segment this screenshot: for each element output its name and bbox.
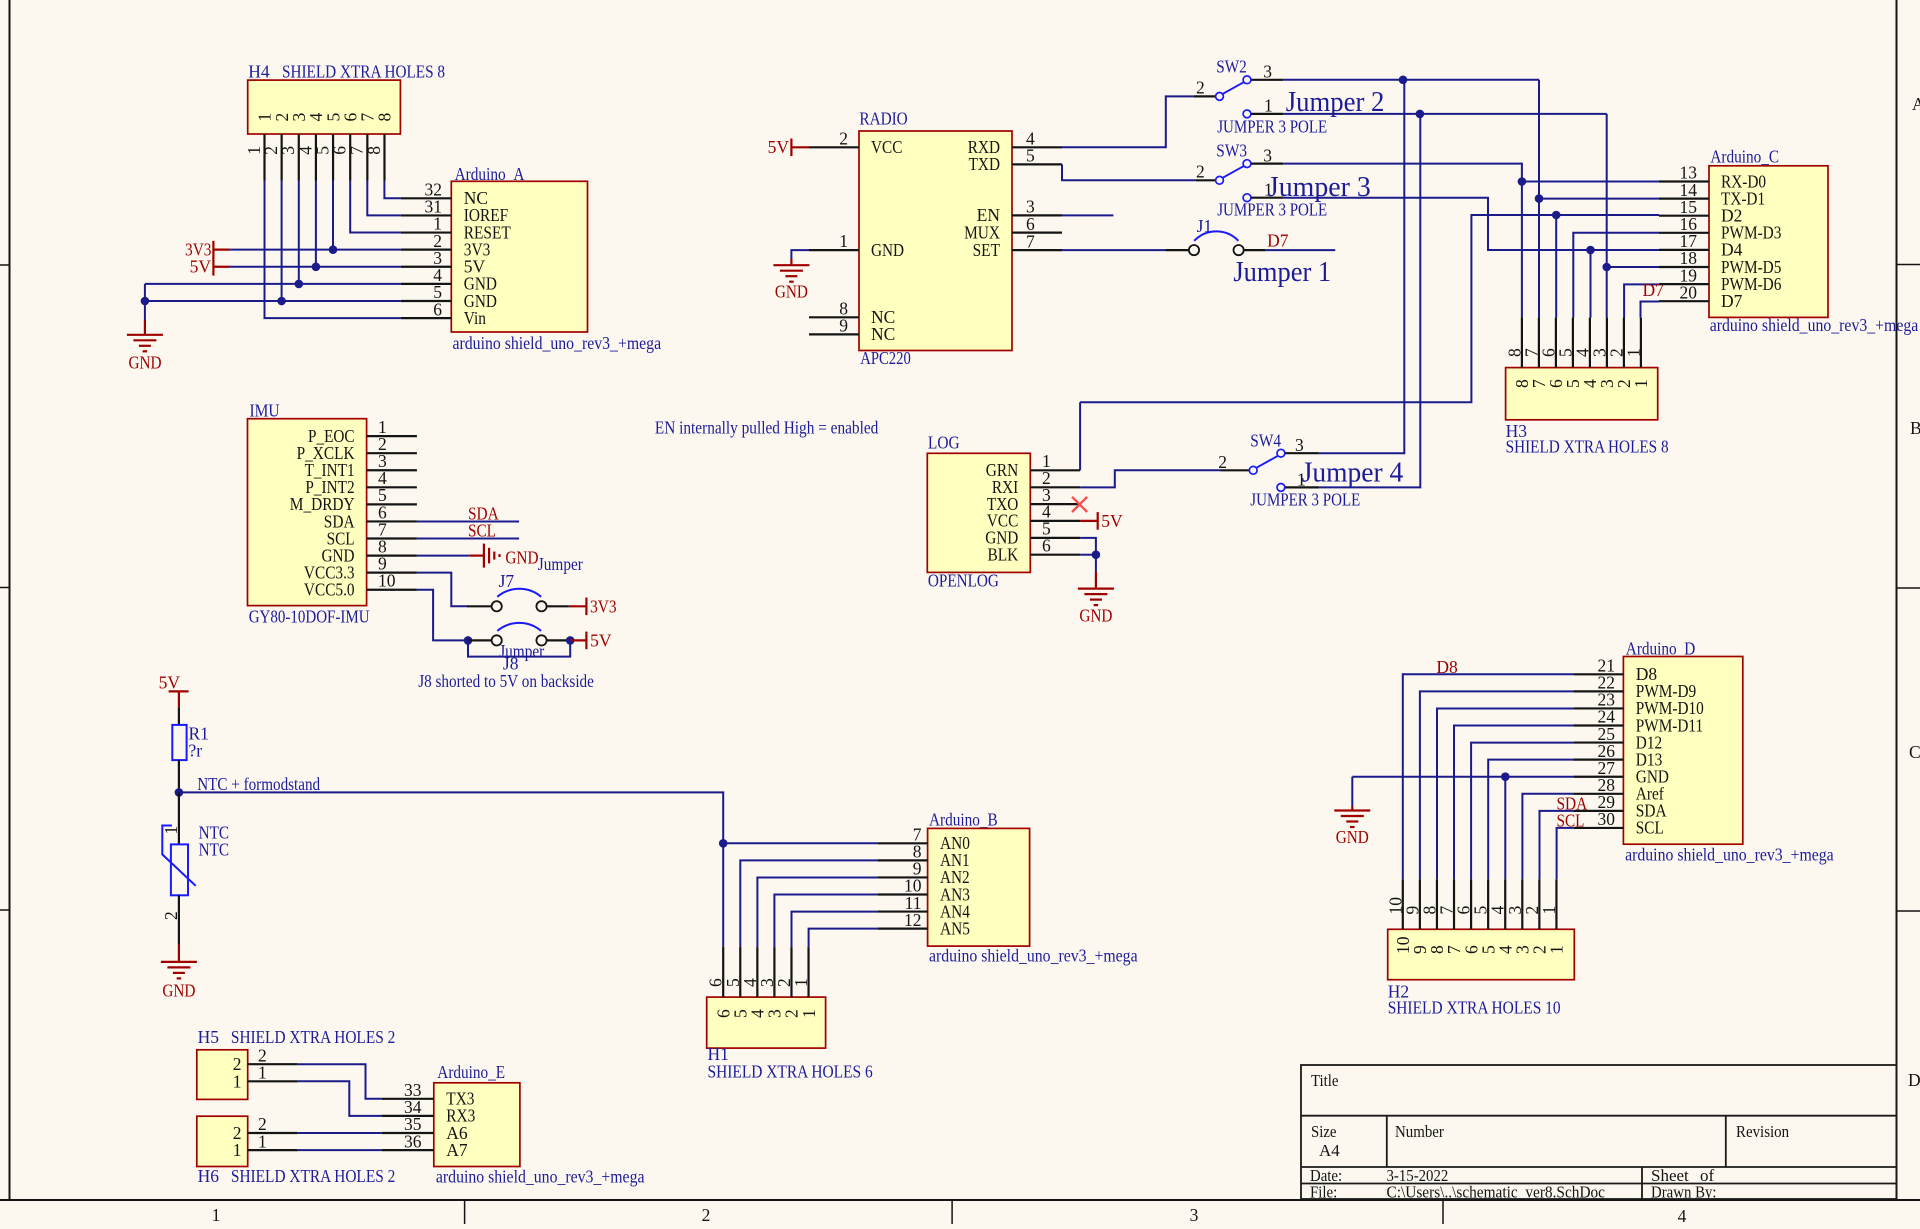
junction bbox=[1535, 194, 1544, 203]
wire SW4.1 up to SW2.1 net bbox=[1319, 114, 1420, 488]
wire RXD to SW2.2 bbox=[1062, 96, 1194, 147]
svg-text:H5: H5 bbox=[198, 1027, 220, 1047]
Arduino_E pin 35 A6 bbox=[382, 1132, 434, 1134]
wire NTC node to Arduino_B bbox=[179, 792, 723, 843]
Arduino_C pin 17 D4 bbox=[1659, 249, 1709, 251]
power flag 3V3 bbox=[213, 249, 229, 251]
SW3 pin 3 bbox=[1243, 160, 1251, 168]
H4 pin 4 bbox=[315, 134, 317, 181]
svg-text:Title: Title bbox=[1311, 1071, 1339, 1090]
junction NTC node bbox=[175, 788, 184, 797]
svg-text:5: 5 bbox=[1026, 146, 1035, 166]
SW4 pin 1 bbox=[1277, 484, 1285, 492]
H4 pin 5 bbox=[332, 134, 334, 181]
LOG pin 3 TXO bbox=[1030, 503, 1080, 505]
H1 pin 1 bbox=[807, 947, 809, 997]
SW4 pin 2 bbox=[1249, 466, 1257, 474]
svg-text:SW2: SW2 bbox=[1216, 57, 1247, 77]
wire net SW2.3 / TX-D1 / H3.7 bbox=[1283, 79, 1539, 81]
svg-text:Drawn By:: Drawn By: bbox=[1651, 1183, 1717, 1202]
svg-text:Arduino_D: Arduino_D bbox=[1626, 639, 1696, 659]
svg-text:Arduino_B: Arduino_B bbox=[929, 810, 998, 830]
wire AN0 bbox=[723, 842, 877, 844]
IMU pin 6 SDA bbox=[367, 520, 417, 522]
wire TXD to SW3.2 bbox=[1062, 164, 1196, 180]
Arduino_A pin 31 IOREF bbox=[401, 214, 451, 216]
wire LOG GND bbox=[1080, 538, 1096, 555]
H4 pin 8 bbox=[383, 134, 385, 181]
svg-text:20: 20 bbox=[1680, 282, 1698, 302]
wire GND drop at left bbox=[144, 284, 146, 320]
Arduino_D pin 23 PWM-D10 bbox=[1573, 707, 1623, 709]
H4 pin 6 bbox=[349, 134, 351, 181]
H5 pin 2 bbox=[248, 1063, 298, 1065]
wire 5V row bbox=[230, 266, 401, 268]
H1 pin 5 bbox=[739, 947, 741, 997]
Arduino_A pin 4 GND bbox=[401, 283, 451, 285]
svg-text:6: 6 bbox=[1042, 536, 1051, 556]
svg-text:1: 1 bbox=[799, 1009, 819, 1018]
LOG pin 2 RXI bbox=[1030, 486, 1080, 488]
svg-text:arduino shield_uno_rev3_+mega: arduino shield_uno_rev3_+mega bbox=[436, 1167, 645, 1187]
wire AN1 to H1.5 bbox=[740, 860, 877, 947]
svg-text:GND: GND bbox=[1079, 606, 1112, 626]
svg-text:2: 2 bbox=[1218, 452, 1227, 472]
wire SCL to H2.1 bbox=[1557, 828, 1574, 879]
LOG pin 6 BLK bbox=[1030, 554, 1080, 556]
svg-text:arduino shield_uno_rev3_+mega: arduino shield_uno_rev3_+mega bbox=[1710, 315, 1919, 335]
svg-text:NTC + formodstand: NTC + formodstand bbox=[197, 774, 320, 794]
wire AN3 to H1.3 bbox=[774, 895, 877, 948]
svg-text:1: 1 bbox=[258, 1131, 267, 1151]
svg-text:GY80-10DOF-IMU: GY80-10DOF-IMU bbox=[249, 607, 370, 627]
svg-text:5V: 5V bbox=[190, 257, 212, 277]
svg-text:A4: A4 bbox=[1319, 1141, 1340, 1160]
wire SCL bbox=[417, 538, 519, 540]
svg-text:3: 3 bbox=[1263, 145, 1272, 165]
wire GND row upper bbox=[145, 283, 401, 285]
connector H6 SHIELD XTRA HOLES 2 bbox=[197, 1116, 248, 1166]
svg-text:H6: H6 bbox=[198, 1166, 220, 1186]
junction bbox=[141, 297, 150, 306]
Arduino_C pin 19 PWM-D6 bbox=[1659, 283, 1709, 285]
svg-text:2: 2 bbox=[1196, 78, 1205, 98]
svg-text:5V: 5V bbox=[768, 137, 790, 157]
svg-text:AN5: AN5 bbox=[940, 918, 970, 938]
wire H4.4 to 5V net bbox=[315, 181, 317, 267]
LOG pin 1 GRN bbox=[1030, 469, 1080, 471]
RADIO pin 2 VCC bbox=[809, 146, 859, 148]
Arduino_C pin 20 D7 bbox=[1659, 300, 1709, 302]
svg-text:?r: ?r bbox=[189, 741, 203, 761]
svg-text:Jumper 1: Jumper 1 bbox=[1233, 256, 1331, 288]
IMU pin 5 M_DRDY bbox=[367, 503, 417, 505]
svg-text:8: 8 bbox=[375, 113, 395, 122]
IMU pin 8 GND bbox=[367, 554, 417, 556]
H2 pin 1 bbox=[1555, 879, 1557, 929]
IMU pin 10 VCC5.0 bbox=[367, 589, 417, 591]
IMU pin 3 T_INT1 bbox=[367, 469, 417, 471]
junction bbox=[719, 839, 728, 848]
wire LOG RXI to SW4.2 bbox=[1080, 470, 1220, 487]
svg-text:A: A bbox=[1912, 94, 1920, 114]
Arduino_D pin 28 Aref bbox=[1573, 793, 1623, 795]
svg-text:Revision: Revision bbox=[1736, 1122, 1790, 1141]
wire NTC node down to H1.6 bbox=[722, 843, 724, 947]
wire net D7 / H3.1 bbox=[1641, 302, 1660, 318]
svg-text:SHIELD XTRA HOLES 8: SHIELD XTRA HOLES 8 bbox=[282, 62, 445, 82]
svg-text:C:\Users\..\schematic_ver8.Sch: C:\Users\..\schematic_ver8.SchDoc bbox=[1387, 1183, 1606, 1202]
ground GND left bbox=[144, 320, 146, 335]
svg-text:SHIELD XTRA HOLES 10: SHIELD XTRA HOLES 10 bbox=[1388, 998, 1561, 1018]
junction bbox=[1416, 110, 1425, 119]
svg-text:1: 1 bbox=[161, 826, 181, 835]
svg-text:1: 1 bbox=[233, 1071, 242, 1091]
H3 pin 5 bbox=[1572, 318, 1574, 368]
Arduino_E pin 34 RX3 bbox=[382, 1115, 434, 1117]
svg-text:B: B bbox=[1910, 418, 1920, 438]
junction bbox=[1552, 211, 1561, 220]
wire AN5 to H1.1 bbox=[809, 929, 878, 947]
svg-text:File:: File: bbox=[1310, 1183, 1337, 1202]
SW4 lever bbox=[1256, 456, 1278, 468]
wire EN open bbox=[1062, 214, 1113, 216]
svg-text:SW3: SW3 bbox=[1216, 141, 1247, 161]
wire H4.8 to NC bbox=[384, 181, 401, 199]
wire AN4 to H1.2 bbox=[792, 912, 878, 948]
svg-text:SW4: SW4 bbox=[1250, 431, 1281, 451]
svg-text:5V: 5V bbox=[590, 631, 612, 651]
connector H4 SHIELD XTRA HOLES 8 bbox=[248, 80, 401, 134]
H6 pin 1 bbox=[248, 1149, 298, 1151]
svg-text:Arduino_C: Arduino_C bbox=[1710, 147, 1779, 167]
svg-text:Number: Number bbox=[1395, 1122, 1444, 1141]
svg-text:JUMPER 3 POLE: JUMPER 3 POLE bbox=[1217, 117, 1327, 137]
svg-text:RADIO: RADIO bbox=[859, 109, 907, 129]
svg-text:GND: GND bbox=[1336, 827, 1369, 847]
IMU pin 7 SCL bbox=[367, 537, 417, 539]
wire GND row lower bbox=[145, 300, 401, 302]
svg-text:1: 1 bbox=[1631, 379, 1651, 388]
Arduino_A pin 2 3V3 bbox=[401, 249, 451, 251]
junction bbox=[1399, 76, 1408, 85]
Arduino_C pin 13 RX-D0 bbox=[1659, 180, 1709, 182]
Arduino_B pin 7 AN0 bbox=[878, 842, 928, 844]
wire net PWM-D6 / H3.2 bbox=[1624, 284, 1659, 317]
H2 pin 5 bbox=[1487, 879, 1489, 929]
wire H4.3 to GND net bbox=[298, 181, 300, 284]
svg-text:2: 2 bbox=[702, 1205, 711, 1224]
connector H3 SHIELD XTRA HOLES 8 bbox=[1506, 368, 1658, 420]
connector H1 SHIELD XTRA HOLES 6 bbox=[707, 997, 826, 1048]
wire D13 to H2.5 bbox=[1488, 760, 1573, 880]
junction bbox=[1602, 263, 1611, 272]
Arduino_A pin 6 Vin bbox=[401, 317, 451, 319]
H3 pin 8 bbox=[1521, 318, 1523, 368]
svg-text:3: 3 bbox=[1263, 62, 1272, 82]
svg-text:arduino shield_uno_rev3_+mega: arduino shield_uno_rev3_+mega bbox=[1625, 845, 1834, 865]
RADIO pin 4 RXD bbox=[1012, 146, 1062, 148]
wire SW4.3 up to SW2.3 net bbox=[1319, 80, 1404, 453]
Arduino_D pin 27 GND bbox=[1573, 776, 1623, 778]
wire PWM-D11 to H2.7 bbox=[1454, 726, 1573, 880]
wire H6.2 to A6 bbox=[298, 1132, 382, 1134]
Arduino_A pin 32 NC bbox=[401, 197, 451, 199]
H4 pin 3 bbox=[298, 134, 300, 181]
wire net SW3.3 / RX-D0 / H3.8 bbox=[1283, 164, 1522, 318]
svg-text:1: 1 bbox=[1264, 96, 1273, 116]
Arduino_E pin 36 A7 bbox=[382, 1149, 434, 1151]
H3 pin 1 bbox=[1640, 318, 1642, 368]
H3 pin 4 bbox=[1589, 318, 1591, 368]
svg-text:NTC: NTC bbox=[199, 839, 230, 859]
svg-text:1: 1 bbox=[1547, 945, 1567, 954]
junction bbox=[566, 636, 575, 645]
svg-text:D7: D7 bbox=[1267, 231, 1289, 251]
ground GND at LOG bbox=[1095, 572, 1097, 589]
wire GND row bbox=[1352, 776, 1573, 778]
Arduino_D pin 25 D12 bbox=[1573, 741, 1623, 743]
svg-text:1: 1 bbox=[233, 1140, 242, 1160]
wire PWM-D9 to H2.9 bbox=[1420, 691, 1574, 879]
wire D8 to H2.10 bbox=[1403, 674, 1574, 879]
svg-text:A7: A7 bbox=[446, 1140, 468, 1160]
Arduino_A pin 3 5V bbox=[401, 266, 451, 268]
RADIO pin 8 NC bbox=[809, 316, 859, 318]
H2 pin 2 bbox=[1538, 879, 1540, 929]
SW4 pin 3 bbox=[1277, 449, 1285, 457]
svg-text:3: 3 bbox=[1295, 435, 1304, 455]
wire 3V3 row bbox=[230, 249, 401, 251]
ground GND at Arduino_D bbox=[1351, 806, 1353, 811]
H2 pin 9 bbox=[1419, 879, 1421, 929]
svg-text:SHIELD XTRA HOLES 2: SHIELD XTRA HOLES 2 bbox=[231, 1166, 395, 1186]
svg-text:J7: J7 bbox=[499, 571, 515, 591]
svg-text:30: 30 bbox=[1598, 809, 1616, 829]
Arduino_C pin 14 TX-D1 bbox=[1659, 198, 1709, 200]
svg-text:Vin: Vin bbox=[464, 308, 486, 328]
no-connect X at TXO bbox=[1072, 497, 1087, 512]
wire GND to H2.4 bbox=[1504, 777, 1506, 880]
H2 pin 3 bbox=[1521, 879, 1523, 929]
power flag 5V at VCC bbox=[791, 146, 809, 148]
svg-text:1: 1 bbox=[258, 1063, 267, 1083]
svg-text:APC220: APC220 bbox=[860, 348, 911, 368]
Arduino_B pin 8 AN1 bbox=[878, 859, 928, 861]
sheet border left bbox=[9, 0, 11, 1200]
Arduino_C pin 15 D2 bbox=[1659, 215, 1709, 217]
wire VCC5.0 to J8 bbox=[417, 590, 468, 641]
RADIO pin 3 EN bbox=[1012, 214, 1062, 216]
jumper J8 bbox=[492, 635, 502, 645]
svg-text:arduino shield_uno_rev3_+mega: arduino shield_uno_rev3_+mega bbox=[929, 946, 1138, 966]
connector H2 SHIELD XTRA HOLES 10 bbox=[1388, 929, 1575, 979]
thermistor NTC bbox=[178, 792, 180, 844]
H1 pin 4 bbox=[756, 947, 758, 997]
Arduino_B pin 9 AN2 bbox=[878, 876, 928, 878]
IMU pin 1 P_EOC bbox=[367, 435, 417, 437]
ground bar at IMU GND bbox=[469, 554, 484, 556]
power flag 5V at LOG VCC bbox=[1080, 520, 1098, 522]
svg-text:H4: H4 bbox=[248, 62, 270, 82]
svg-text:2: 2 bbox=[839, 128, 848, 148]
wire SDA to H2.2 bbox=[1540, 811, 1574, 879]
SW2 lever bbox=[1223, 82, 1245, 94]
SW2 pin 2 bbox=[1216, 93, 1224, 101]
H2 pin 8 bbox=[1436, 879, 1438, 929]
junction bbox=[295, 280, 304, 289]
svg-text:7: 7 bbox=[1026, 231, 1035, 251]
svg-text:J8 shorted to 5V on backside: J8 shorted to 5V on backside bbox=[418, 671, 594, 691]
svg-text:Jumper 4: Jumper 4 bbox=[1302, 457, 1404, 489]
svg-text:SHIELD XTRA HOLES 6: SHIELD XTRA HOLES 6 bbox=[708, 1062, 873, 1082]
svg-text:SET: SET bbox=[973, 240, 1001, 260]
svg-text:JUMPER 3 POLE: JUMPER 3 POLE bbox=[1250, 490, 1360, 510]
svg-text:5V: 5V bbox=[159, 673, 181, 693]
svg-text:D7: D7 bbox=[1721, 291, 1743, 311]
Arduino_D pin 22 PWM-D9 bbox=[1573, 690, 1623, 692]
svg-text:Jumper: Jumper bbox=[538, 554, 583, 574]
H1 pin 6 bbox=[722, 947, 724, 997]
ground GND at NTC bbox=[178, 944, 180, 962]
Arduino_A pin 5 GND bbox=[401, 300, 451, 302]
svg-text:GND: GND bbox=[162, 981, 195, 1001]
Arduino_B pin 10 AN3 bbox=[878, 893, 928, 895]
wire H4.1 to Vin bbox=[265, 181, 401, 319]
zone tick marks bbox=[0, 264, 10, 266]
wire H5.1 to RX3 bbox=[298, 1081, 382, 1116]
wire GND lead bbox=[791, 250, 809, 259]
wire H4.5 to 3V3 net bbox=[332, 181, 334, 250]
wire Aref to H2.3 bbox=[1522, 794, 1573, 880]
svg-text:SHIELD XTRA HOLES 2: SHIELD XTRA HOLES 2 bbox=[231, 1027, 395, 1047]
svg-text:1: 1 bbox=[791, 978, 811, 987]
RADIO pin 7 SET bbox=[1012, 249, 1062, 251]
H2 pin 7 bbox=[1453, 879, 1455, 929]
RADIO pin 6 MUX bbox=[1012, 232, 1062, 234]
RADIO pin 9 NC bbox=[809, 333, 859, 335]
svg-text:GND: GND bbox=[128, 353, 161, 373]
wire net D2 / LOG GRN / H3.6 bbox=[1080, 215, 1659, 402]
Arduino_D pin 30 SCL bbox=[1573, 827, 1623, 829]
svg-text:arduino shield_uno_rev3_+mega: arduino shield_uno_rev3_+mega bbox=[453, 333, 662, 353]
H3 pin 7 bbox=[1538, 318, 1540, 368]
H3 pin 2 bbox=[1623, 318, 1625, 368]
wire LOG BLK bbox=[1080, 554, 1096, 556]
RADIO pin 5 TXD bbox=[1012, 163, 1062, 165]
svg-text:9: 9 bbox=[839, 315, 848, 335]
Arduino_B pin 11 AN4 bbox=[878, 910, 928, 912]
title block bbox=[1301, 1065, 1897, 1199]
svg-text:SCL: SCL bbox=[1636, 818, 1664, 838]
svg-text:LOG: LOG bbox=[928, 433, 960, 453]
H2 pin 10 bbox=[1402, 879, 1404, 929]
junction bbox=[277, 297, 286, 306]
wire SDA bbox=[417, 520, 519, 522]
svg-text:12: 12 bbox=[904, 910, 922, 930]
H3 pin 6 bbox=[1555, 318, 1557, 368]
H6 pin 2 bbox=[248, 1132, 298, 1134]
svg-text:GND: GND bbox=[775, 282, 808, 302]
SW3 pin 2 bbox=[1216, 176, 1224, 184]
junction bbox=[329, 245, 338, 254]
power flag 5V at J8 bbox=[570, 639, 586, 641]
power flag 3V3 at J7 bbox=[569, 605, 587, 607]
wire AN2 to H1.4 bbox=[757, 877, 877, 947]
SW2 pin 1 bbox=[1243, 110, 1251, 118]
svg-text:3V3: 3V3 bbox=[590, 596, 617, 616]
svg-text:1: 1 bbox=[1623, 348, 1643, 357]
svg-text:VCC5.0: VCC5.0 bbox=[304, 580, 355, 600]
svg-text:C: C bbox=[1909, 742, 1920, 762]
Arduino_D pin 29 SDA bbox=[1573, 810, 1623, 812]
junction bbox=[464, 636, 473, 645]
wire SET to J1 bbox=[1062, 249, 1165, 251]
junction bbox=[1092, 550, 1101, 559]
svg-text:2: 2 bbox=[1196, 162, 1205, 182]
junction bbox=[312, 262, 321, 271]
svg-text:1: 1 bbox=[839, 231, 848, 251]
H4 pin 1 bbox=[263, 134, 265, 181]
Arduino_E pin 33 TX3 bbox=[382, 1098, 434, 1100]
svg-text:GND: GND bbox=[505, 548, 538, 568]
svg-text:8: 8 bbox=[364, 146, 384, 155]
Arduino_D pin 21 D8 bbox=[1573, 673, 1623, 675]
LOG pin 5 GND bbox=[1030, 537, 1080, 539]
svg-text:GND: GND bbox=[871, 240, 904, 260]
sheet border right bbox=[1896, 0, 1898, 1200]
svg-text:BLK: BLK bbox=[988, 545, 1019, 565]
junction bbox=[1501, 772, 1510, 781]
svg-text:5V: 5V bbox=[1101, 511, 1123, 531]
wire H5.2 to TX3 bbox=[298, 1064, 382, 1099]
svg-text:Arduino_E: Arduino_E bbox=[437, 1062, 505, 1082]
wire H6.1 to A7 bbox=[298, 1149, 382, 1151]
svg-text:Size: Size bbox=[1311, 1122, 1337, 1141]
wire D7 bbox=[1266, 249, 1336, 251]
SW3 pin 1 bbox=[1243, 194, 1251, 202]
junction bbox=[1518, 177, 1527, 186]
wire GND to ground bbox=[1351, 777, 1353, 806]
RADIO pin 1 GND bbox=[809, 249, 859, 251]
wire VCC3.3 to J7 bbox=[417, 573, 467, 607]
svg-text:EN internally pulled High = en: EN internally pulled High = enabled bbox=[655, 418, 879, 438]
svg-text:IMU: IMU bbox=[250, 401, 280, 421]
svg-text:6: 6 bbox=[433, 299, 442, 319]
H1 pin 3 bbox=[773, 947, 775, 997]
junction bbox=[1586, 246, 1595, 255]
H1 pin 2 bbox=[790, 947, 792, 997]
wire PWM-D10 to H2.8 bbox=[1437, 708, 1573, 879]
svg-text:NC: NC bbox=[871, 324, 895, 344]
wire net SW2.1 / PWM-D5 / H3.3 bbox=[1283, 113, 1607, 115]
Arduino_C pin 16 PWM-D3 bbox=[1659, 232, 1709, 234]
sheet border bottom bbox=[0, 1199, 1920, 1201]
Arduino_A pin 1 RESET bbox=[401, 231, 451, 233]
wire H4.2 to GND net bbox=[281, 181, 283, 302]
svg-text:VCC: VCC bbox=[871, 137, 902, 157]
wire net SW3.1 / D4 / H3.4 bbox=[1283, 198, 1590, 250]
power flag 5V bbox=[213, 266, 229, 268]
LOG pin 4 VCC bbox=[1030, 520, 1080, 522]
IMU pin 9 VCC3.3 bbox=[367, 572, 417, 574]
svg-text:TXD: TXD bbox=[969, 154, 1000, 174]
IMU pin 2 P_XCLK bbox=[367, 452, 417, 454]
wire IMU GND bbox=[417, 555, 469, 557]
ground GND at RADIO bbox=[790, 259, 792, 265]
svg-text:10: 10 bbox=[378, 571, 396, 591]
resistor R1 bbox=[178, 707, 180, 725]
